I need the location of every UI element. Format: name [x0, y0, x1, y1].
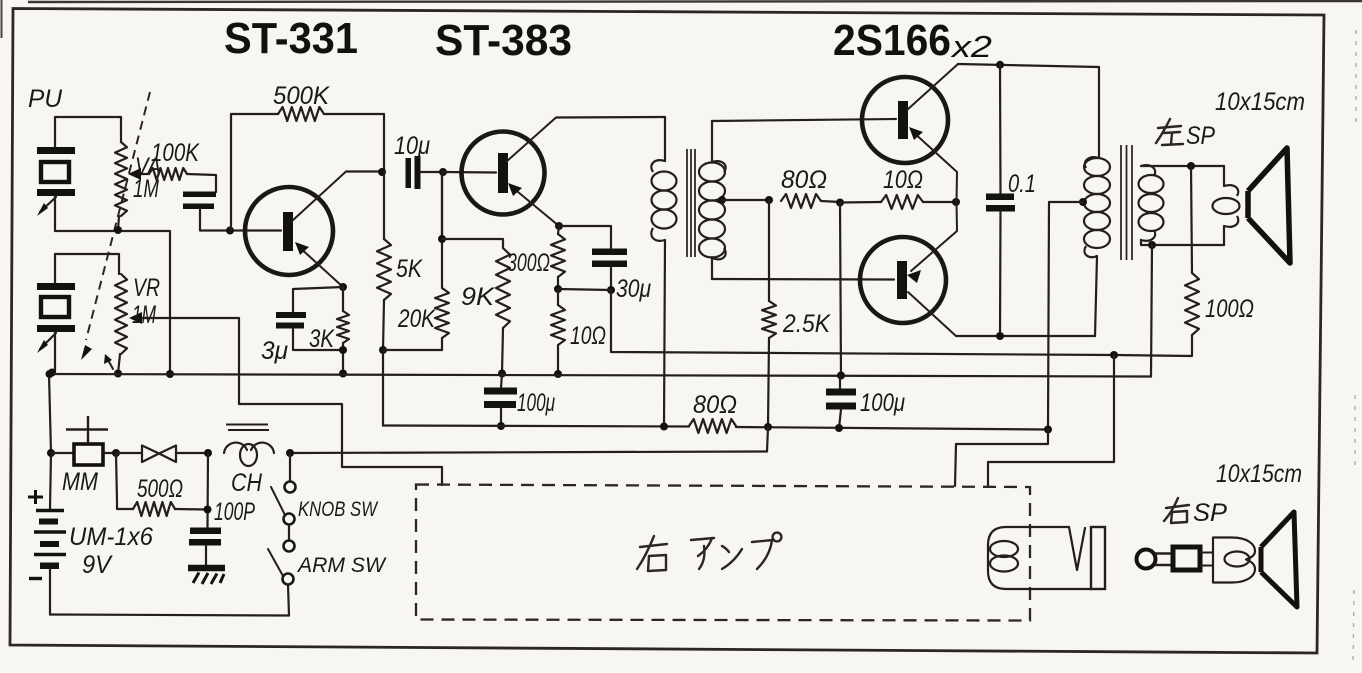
- resistor 10ohm emitter: [551, 289, 565, 374]
- wire bias node to 9K: [442, 239, 503, 248]
- node 10ohm rail: [554, 370, 562, 378]
- transformer T2 output primary: [1084, 67, 1110, 336]
- node 30u bottom: [607, 286, 615, 294]
- node Q1 emitter: [339, 283, 347, 291]
- node 500K left at base: [226, 227, 234, 235]
- wire emitter to 3u branch: [293, 287, 343, 313]
- pickup cartridge PU-A: [37, 147, 75, 216]
- plug right speaker: [1137, 547, 1214, 570]
- speaker L horn: [1248, 148, 1290, 263]
- capacitor 3u: [276, 312, 343, 350]
- node 300ohm bottom: [554, 285, 562, 293]
- transformer T1 core: [687, 149, 695, 257]
- svg-text:PU: PU: [28, 85, 63, 113]
- node input ground rail: [166, 370, 174, 378]
- wire CH node down to switch: [289, 453, 291, 481]
- main rail collector bus: [49, 374, 1151, 377]
- node bias 9K20K: [438, 235, 446, 243]
- transistor Q1 ST-331: [245, 172, 346, 288]
- node 3K bottom: [339, 346, 347, 354]
- wire Q1 collector line: [346, 170, 382, 172]
- wire emitter to 30u: [559, 226, 611, 249]
- node Q1 collector: [378, 168, 386, 176]
- wire sec bottom to rail: [1151, 245, 1152, 377]
- svg-text:300Ω: 300Ω: [507, 249, 550, 277]
- wire node to 10ohm: [840, 201, 881, 204]
- svg-text:20K: 20K: [397, 305, 436, 333]
- label battery minus: [29, 577, 42, 580]
- node 2.5K rail2: [764, 423, 772, 431]
- svg-text:SP: SP: [1186, 122, 1215, 150]
- node diode left: [112, 449, 120, 457]
- resistor 500K feedback: [231, 107, 384, 230]
- node 5K-20K bottom: [379, 346, 387, 354]
- svg-text:MM: MM: [62, 468, 98, 496]
- node 100u bottom rail2: [497, 422, 505, 430]
- wire base node to Q2: [443, 171, 496, 174]
- svg-text:100μ: 100μ: [860, 389, 905, 417]
- svg-text:10μ: 10μ: [394, 132, 430, 160]
- svg-text:2.5K: 2.5K: [782, 310, 831, 338]
- page edge artifact left tick: [1, 0, 3, 38]
- node 0.1 bottom: [996, 332, 1004, 340]
- wire base node down: [441, 172, 443, 239]
- svg-text:5K: 5K: [396, 255, 423, 283]
- label right amp kanji: [637, 533, 781, 571]
- resistor 100K: [149, 168, 187, 180]
- wire 100P stem: [206, 453, 209, 528]
- transistor Q3 2S166 upper: [862, 64, 958, 202]
- capacitor 0.1: [986, 65, 1015, 336]
- svg-text:80Ω: 80Ω: [693, 391, 737, 419]
- wire T1 sec top to Q3 base: [712, 119, 896, 121]
- svg-text:500Ω: 500Ω: [137, 475, 183, 503]
- speaker R horn: [1261, 512, 1297, 607]
- svg-text:10Ω: 10Ω: [883, 166, 923, 194]
- node 9K rail: [498, 370, 506, 378]
- transformer T1 secondary: [699, 121, 726, 279]
- node emitters: [952, 198, 960, 206]
- svg-text:100K: 100K: [151, 139, 200, 167]
- socket right speaker: [1213, 538, 1255, 583]
- potentiometer VA 1M: [115, 117, 148, 230]
- label left SP kanji: [1156, 119, 1183, 145]
- node 100u2 bottom: [835, 424, 843, 432]
- wire 10ohm to emitters: [923, 201, 956, 203]
- node CH right: [286, 449, 294, 457]
- resistor 5K: [377, 172, 391, 350]
- svg-text:x2: x2: [950, 29, 992, 64]
- resistor 500ohm: [116, 453, 207, 516]
- wire VR wiper to right amp: [143, 318, 442, 485]
- page edge artifact top: [28, 1, 1362, 2]
- wire rail to battery: [49, 374, 51, 453]
- capacitor 30u: [592, 249, 627, 291]
- switch ARM SW: [268, 541, 295, 585]
- meter MM: [51, 416, 116, 465]
- svg-text:SP: SP: [1193, 499, 1227, 527]
- transistor Q2 ST-383: [462, 118, 560, 227]
- svg-text:10Ω: 10Ω: [570, 322, 606, 350]
- potentiometer VR 1M: [55, 254, 149, 374]
- resistor 3K: [337, 287, 349, 374]
- wire bottom node to 20K: [383, 338, 442, 350]
- node MM line left: [47, 449, 55, 457]
- node CT rail2: [1044, 426, 1052, 434]
- wire Q2 collector to T1: [556, 116, 665, 119]
- resistor 20K: [435, 288, 449, 338]
- resistor 9K: [496, 248, 510, 374]
- svg-text:100μ: 100μ: [517, 389, 555, 417]
- wire 5K20K bottom to rail2: [382, 350, 384, 426]
- node bias emitter junction: [836, 199, 844, 207]
- svg-text:UM-1x6: UM-1x6: [69, 523, 153, 551]
- node diode right: [204, 449, 212, 457]
- svg-text:9K: 9K: [461, 283, 495, 311]
- wire ARM SW to bottom rail: [288, 585, 289, 616]
- svg-text:10x15cm: 10x15cm: [1216, 460, 1302, 488]
- resistor 80ohm rail2: [689, 419, 736, 433]
- wire T2 center tap down: [1048, 202, 1083, 430]
- capacitor 100u second: [826, 376, 856, 429]
- wire emitter bottom node: [558, 289, 611, 290]
- node PU-R rail: [48, 369, 56, 377]
- wire Q3 collector top bus: [958, 64, 1099, 67]
- capacitor 10u coupling: [406, 156, 444, 189]
- resistor 2.5K: [762, 200, 776, 427]
- transistor Q4 2S166 lower: [860, 202, 957, 336]
- capacitor 100P: [189, 528, 221, 566]
- capacitor 100u first: [484, 374, 517, 427]
- wire supply line CH to rail2: [290, 427, 768, 453]
- svg-text:100P: 100P: [214, 498, 255, 526]
- wire Q4 collector line: [956, 335, 1095, 337]
- node 100ohm top: [1187, 162, 1195, 170]
- wire cap to Q1 base: [200, 209, 281, 231]
- wire T2 sec top: [1141, 165, 1224, 167]
- wire NFB to right amp: [988, 355, 1114, 486]
- wire 100K to coupling cap: [187, 174, 216, 192]
- node T2 center tap: [1079, 198, 1087, 206]
- svg-text:VR: VR: [133, 274, 160, 302]
- wire PU-A top: [55, 117, 121, 147]
- node Q2 emitter: [555, 222, 563, 230]
- wire T1 sec bottom to Q4 base: [712, 278, 894, 281]
- mechanical link dashed arm: [81, 92, 150, 360]
- wire PU-R bottom: [52, 332, 55, 372]
- node at rail: [837, 372, 845, 380]
- svg-text:10x15cm: 10x15cm: [1215, 88, 1305, 116]
- VR bottom tick arrow: [104, 354, 113, 369]
- resistor 10ohm top: [881, 195, 923, 209]
- wire between switches: [288, 525, 290, 541]
- resistor 80ohm top: [781, 194, 821, 208]
- svg-text:30μ: 30μ: [616, 275, 651, 303]
- switch KNOB SW: [271, 482, 296, 525]
- choke CH: [224, 425, 274, 467]
- transformer T2 core: [1121, 145, 1132, 260]
- transformer T1 interstage primary: [651, 117, 676, 427]
- ground: [188, 568, 225, 584]
- node T1 primary rail2: [660, 423, 668, 431]
- page edge artifact right: [1353, 30, 1356, 665]
- right amp dashed box: [416, 485, 1030, 621]
- svg-text:3K: 3K: [309, 325, 335, 353]
- node Q2 base line: [439, 168, 447, 176]
- wire battery bottom rail: [50, 615, 289, 616]
- wire NFB line from 30u: [611, 290, 1114, 355]
- wire PU-A bottom to base bus: [55, 196, 170, 374]
- svg-text:ST-383: ST-383: [435, 16, 572, 65]
- wire 20K top to base node: [441, 172, 443, 288]
- diode D1: [116, 446, 208, 463]
- node VA bottom: [114, 226, 122, 234]
- resistor 100ohm: [1114, 166, 1199, 356]
- wire rail2 to right amp: [955, 430, 1048, 487]
- label battery plus: [28, 490, 43, 504]
- wire node to rail: [840, 203, 841, 376]
- svg-text:0.1: 0.1: [1008, 170, 1036, 198]
- svg-text:2S166: 2S166: [833, 16, 951, 65]
- battery UM-1x6: [34, 453, 66, 615]
- node NFB junction: [1110, 351, 1118, 359]
- connector L plug body: [1091, 527, 1105, 589]
- connector L socket: [988, 527, 1091, 589]
- node 100P 500ohm: [204, 506, 212, 514]
- svg-text:ARM SW: ARM SW: [296, 554, 387, 577]
- svg-text:ST-331: ST-331: [224, 14, 358, 63]
- resistor 300ohm: [551, 226, 565, 289]
- node 0.1 top: [996, 61, 1004, 69]
- label right SP kanji: [1164, 498, 1189, 523]
- svg-text:100Ω: 100Ω: [1205, 295, 1254, 323]
- transformer T2 secondary: [1139, 165, 1164, 245]
- node sec bottom: [1148, 241, 1156, 249]
- svg-text:80Ω: 80Ω: [781, 166, 827, 194]
- svg-text:9V: 9V: [82, 551, 113, 579]
- wire center tap: [722, 199, 769, 201]
- node 3K rail: [339, 370, 347, 378]
- node rail battery corner: [46, 370, 54, 378]
- pickup cartridge PU-R: [37, 283, 75, 353]
- wire T2 sec bottom: [1141, 244, 1224, 246]
- svg-text:CH: CH: [231, 469, 263, 497]
- node VR bottom rail: [114, 370, 122, 378]
- capacitor input coupling: [183, 192, 216, 210]
- svg-text:500K: 500K: [273, 82, 330, 110]
- svg-text:3μ: 3μ: [261, 337, 288, 365]
- speaker L voice coil: [1213, 166, 1240, 245]
- bias rail2: [383, 426, 1048, 430]
- node T1 center tap: [718, 196, 726, 204]
- svg-text:1M: 1M: [132, 301, 156, 329]
- node center tap junction: [765, 196, 773, 204]
- svg-text:KNOB SW: KNOB SW: [298, 498, 379, 521]
- wire 80ohm to node: [821, 201, 840, 202]
